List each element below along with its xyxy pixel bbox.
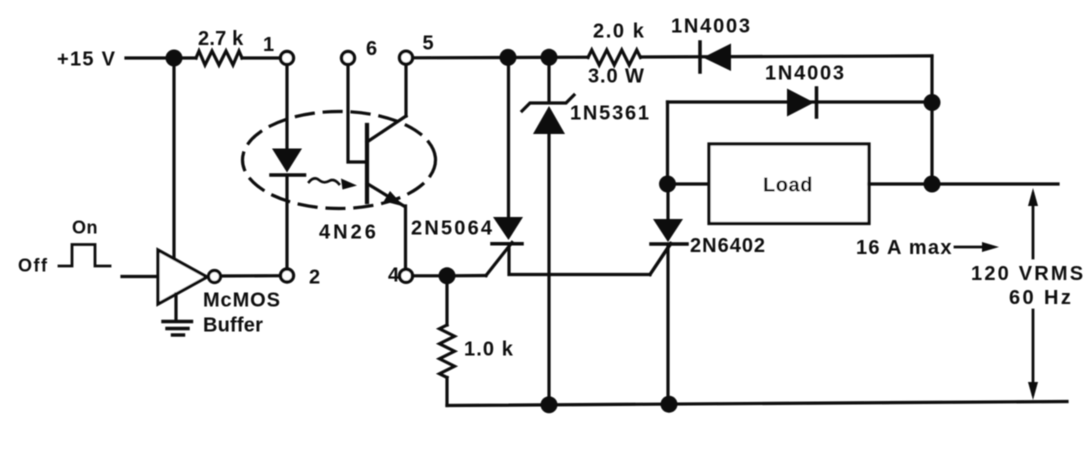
SCR Q2 2N5064 anode wire bbox=[507, 57, 510, 217]
wire buffer output to pin2 bbox=[221, 274, 280, 277]
phototransistor collector bbox=[367, 116, 406, 142]
svg-text:4N26: 4N26 bbox=[319, 222, 379, 244]
LED D1 (opto emitter) bbox=[272, 149, 302, 173]
source arrow 120VRMS top segment bbox=[1032, 194, 1035, 258]
wire pin1 to LED bbox=[285, 65, 288, 148]
pin 6 terminal circle bbox=[342, 52, 355, 65]
zener D4 bottom wire bbox=[547, 134, 550, 405]
wire second diode row bbox=[668, 100, 933, 103]
svg-text:120 VRMS: 120 VRMS bbox=[971, 263, 1085, 285]
svg-text:2: 2 bbox=[309, 267, 320, 289]
junction dot zener node bbox=[541, 49, 558, 66]
wire top rail pin5 to right corner bbox=[415, 56, 588, 60]
svg-text:2N6402: 2N6402 bbox=[690, 235, 766, 257]
junction dot 2N6402 bottom bbox=[661, 396, 678, 413]
svg-text:6: 6 bbox=[366, 38, 377, 60]
SCR Q3 2N6402 anode wire bbox=[666, 184, 669, 219]
SCR Q2 2N5064 body bbox=[493, 217, 523, 240]
junction dot diode row bbox=[924, 94, 941, 111]
wire LED to pin2 bbox=[285, 176, 288, 269]
svg-text:1N4003: 1N4003 bbox=[765, 63, 846, 85]
diode D3 1N4003 (second, pointing right) bbox=[787, 89, 814, 117]
wire right vertical between dots bbox=[930, 103, 933, 185]
phototransistor emitter with arrow bbox=[367, 184, 404, 207]
wire load box to right node bbox=[869, 182, 932, 185]
pin 1 terminal circle bbox=[281, 52, 294, 65]
wire cathode diagonal to 2N6402 gate bbox=[650, 244, 671, 275]
junction dot load left node bbox=[659, 176, 676, 193]
arrow 16A direction bbox=[955, 246, 986, 249]
svg-text:60 Hz: 60 Hz bbox=[1009, 287, 1073, 309]
svg-text:2.7 k: 2.7 k bbox=[198, 28, 244, 50]
svg-text:McMOS: McMOS bbox=[203, 290, 281, 312]
light arrow (LED to transistor) bbox=[309, 178, 339, 184]
pin 5 terminal circle bbox=[400, 51, 413, 64]
wire pin4 to gate node bbox=[413, 274, 448, 277]
buffer U2 triangle bbox=[158, 250, 207, 304]
load box bbox=[709, 144, 869, 224]
wire buffer bottom to ground bbox=[174, 294, 177, 321]
svg-text:16 A max: 16 A max bbox=[856, 237, 953, 259]
wire input to buffer bbox=[122, 275, 158, 278]
wire top rail corner down bbox=[930, 56, 933, 103]
wire corner down to load node bbox=[666, 102, 669, 184]
ground bbox=[163, 320, 192, 323]
svg-text:1: 1 bbox=[263, 34, 274, 56]
SCR Q3 2N6402 body bbox=[653, 219, 683, 242]
wire load node to source top bbox=[932, 182, 1058, 185]
svg-text:2.0 k: 2.0 k bbox=[593, 21, 645, 43]
svg-text:+15 V: +15 V bbox=[57, 49, 116, 71]
opto-isolator U1 4N26 dashed package outline bbox=[243, 112, 436, 209]
svg-text:2N5064: 2N5064 bbox=[411, 218, 494, 240]
svg-text:1.0 k: 1.0 k bbox=[464, 339, 514, 361]
wire gate node to SCR gate bbox=[447, 274, 486, 277]
svg-text:1N5361: 1N5361 bbox=[570, 103, 651, 125]
resistor R3 1.0k bbox=[445, 276, 448, 325]
svg-text:Load: Load bbox=[763, 175, 813, 197]
junction dot A (+15V node) bbox=[166, 50, 183, 67]
diode D2 1N4003 (top, pointing left) bbox=[698, 42, 702, 72]
bottom rail bbox=[447, 402, 1067, 406]
buffer output bubble bbox=[209, 271, 221, 283]
wire emitter to pin4 bbox=[404, 206, 407, 269]
zener D4 body bbox=[533, 106, 565, 134]
SCR Q3 cathode wire bbox=[666, 246, 669, 405]
resistor R1 2.7k bbox=[174, 56, 196, 59]
phototransistor Q1 base bar bbox=[365, 125, 369, 202]
zener D4 1N5361 top wire bbox=[547, 57, 550, 102]
pin 2 terminal circle bbox=[281, 269, 294, 282]
zener D4 cathode bar with bent ends bbox=[522, 95, 574, 111]
wire load node to box bbox=[668, 182, 710, 185]
junction dot zener bottom bbox=[541, 396, 558, 413]
SCR Q2 cathode wire bbox=[509, 246, 650, 275]
svg-text:1N4003: 1N4003 bbox=[671, 16, 752, 38]
wire junction down to buffer top bbox=[172, 58, 175, 260]
junction dot gate/1.0k node bbox=[439, 267, 456, 284]
svg-text:5: 5 bbox=[423, 33, 434, 55]
pin 4 terminal circle bbox=[400, 269, 413, 282]
wire +15V to junction bbox=[126, 56, 174, 59]
SCR Q2 gate lead bbox=[486, 243, 512, 276]
svg-text:4: 4 bbox=[388, 265, 400, 287]
resistor R2 2.0k bbox=[588, 50, 641, 65]
SCR Q3 gate lead bbox=[650, 244, 671, 275]
svg-text:On: On bbox=[72, 218, 98, 238]
junction dot 2N5064 anode node bbox=[500, 49, 517, 66]
svg-text:Buffer: Buffer bbox=[203, 315, 263, 337]
wire pin6 to base bbox=[348, 65, 365, 162]
svg-text:Off: Off bbox=[18, 256, 49, 276]
junction dot load right node bbox=[924, 176, 941, 193]
pulse waveform bbox=[59, 245, 110, 267]
source arrow bottom segment bbox=[1032, 310, 1035, 394]
svg-text:3.0 W: 3.0 W bbox=[588, 66, 645, 88]
